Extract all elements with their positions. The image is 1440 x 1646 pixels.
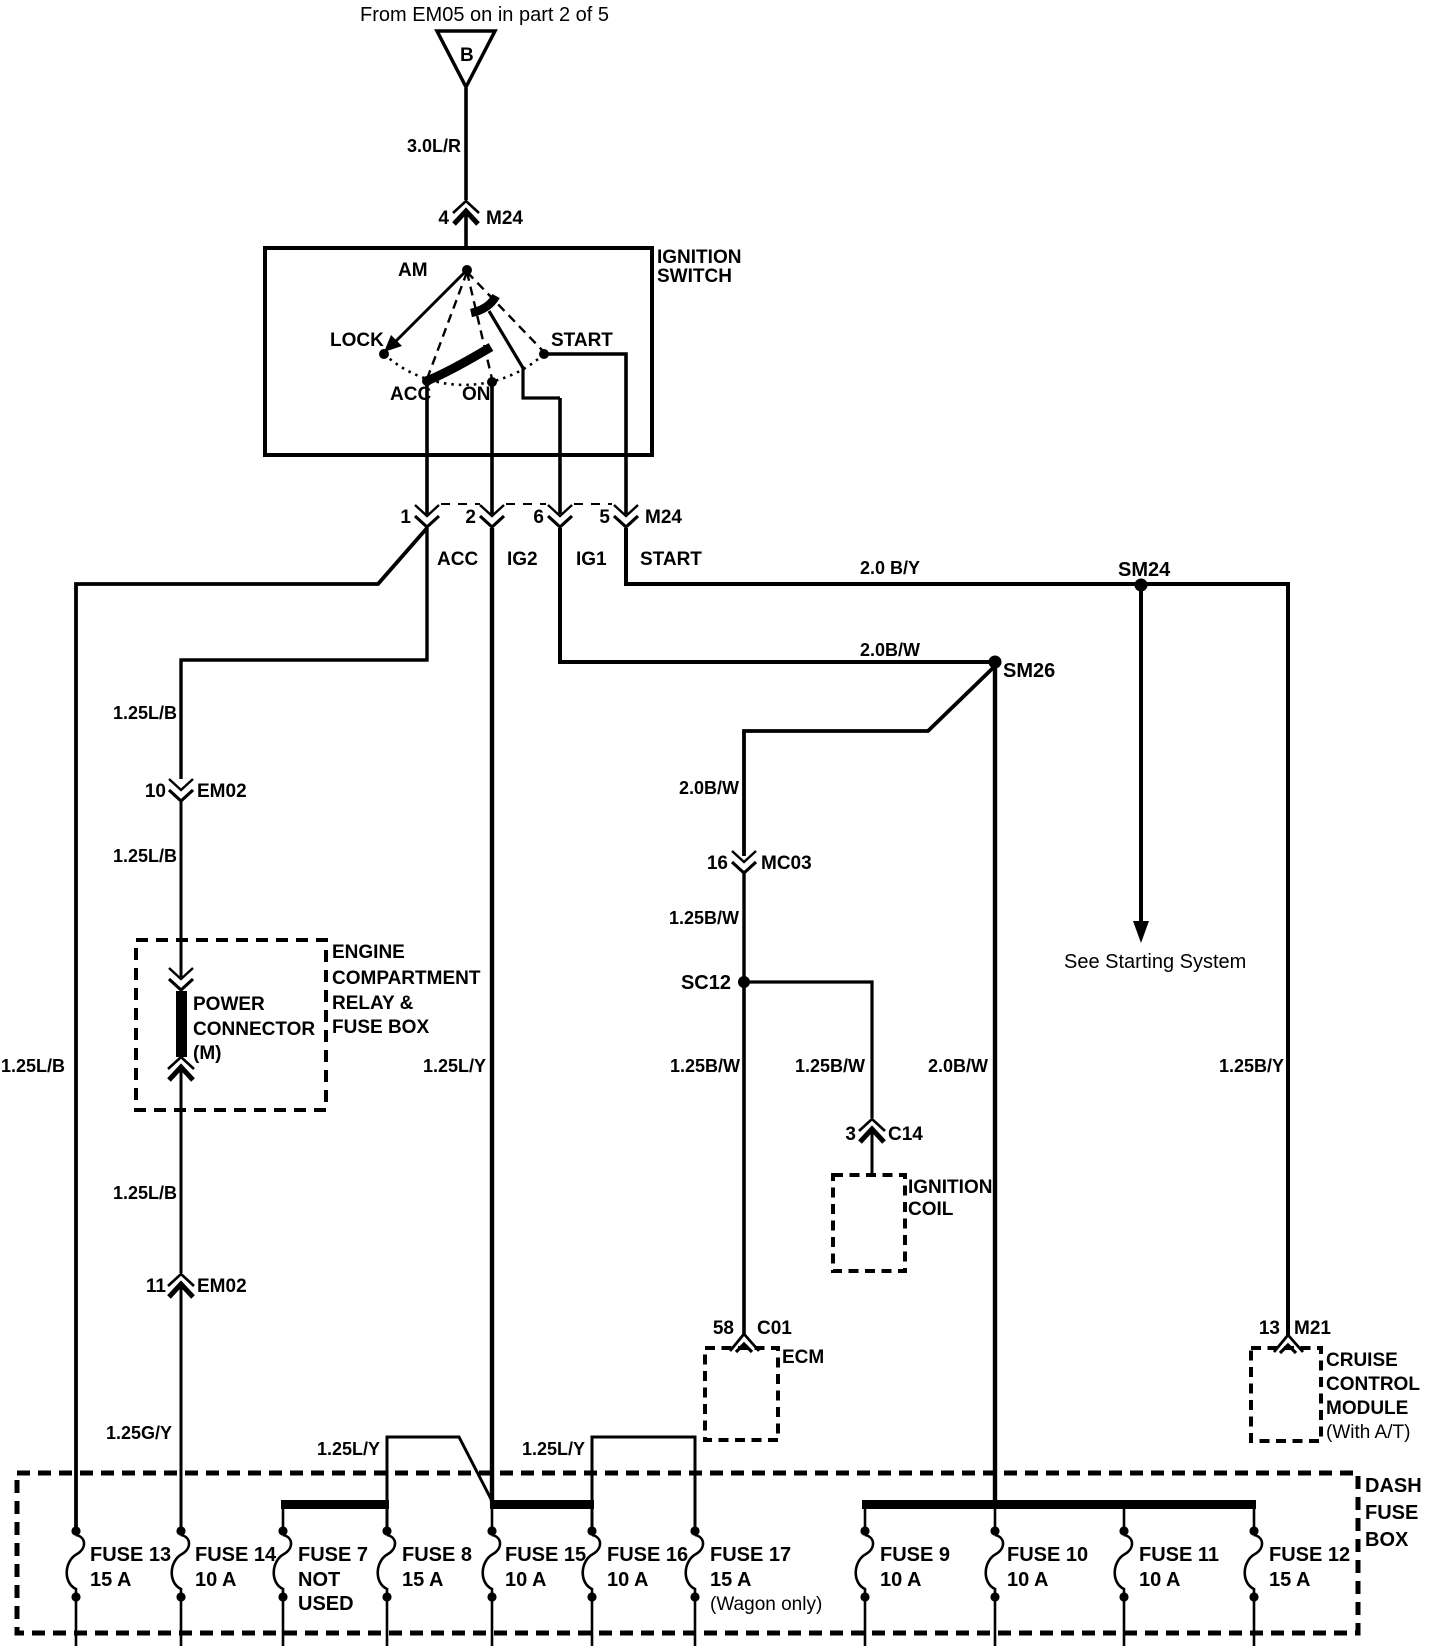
svg-text:ON: ON [462,384,491,405]
connector M24 pin 1 [415,505,439,527]
wire 3.0L/R [464,88,468,200]
cruise control module box [1251,1348,1321,1441]
svg-text:IG2: IG2 [507,549,538,570]
svg-text:ACC: ACC [437,549,478,570]
svg-text:SM26: SM26 [1003,660,1055,682]
svg-text:2: 2 [465,507,476,528]
connector M24 pin 5 [614,505,638,527]
svg-text:1.25L/B: 1.25L/B [113,1183,177,1203]
svg-text:FUSE 13: FUSE 13 [90,1544,171,1566]
svg-text:2.0B/W: 2.0B/W [860,640,920,660]
wire IG1 to SM26 [560,528,995,662]
svg-text:1: 1 [400,507,411,528]
svg-text:5: 5 [599,507,610,528]
wire SM24 to right branch [1141,584,1288,1337]
fuse 13 [67,1526,84,1601]
svg-text:MC03: MC03 [761,853,812,874]
svg-text:(M): (M) [193,1043,221,1064]
engine compartment relay and fuse box [136,940,326,1110]
wire below power connector [180,1069,183,1273]
connector M21 pin 13 [1274,1335,1303,1353]
svg-text:15 A: 15 A [710,1569,752,1591]
svg-text:10 A: 10 A [195,1569,237,1591]
svg-text:1.25B/Y: 1.25B/Y [1219,1056,1284,1076]
svg-text:From EM05 on in part 2 of 5: From EM05 on in part 2 of 5 [360,4,609,26]
connector C14 pin 3 [859,1119,885,1142]
svg-text:SWITCH: SWITCH [657,266,732,287]
svg-text:C01: C01 [757,1318,792,1339]
svg-text:(With A/T): (With A/T) [1326,1422,1410,1443]
svg-text:15 A: 15 A [1269,1569,1311,1591]
svg-text:EM02: EM02 [197,781,247,802]
svg-text:1.25L/B: 1.25L/B [1,1056,65,1076]
fuse 8 [378,1526,395,1601]
dashed line AM-START [467,272,543,351]
svg-text:10 A: 10 A [1139,1569,1181,1591]
connector MC03 pin 16 [732,851,756,873]
svg-text:START: START [640,549,702,570]
svg-text:START: START [551,330,613,351]
svg-text:4: 4 [438,208,449,229]
svg-text:NOT: NOT [298,1569,340,1591]
svg-text:15 A: 15 A [90,1569,132,1591]
svg-text:BOX: BOX [1365,1529,1409,1551]
svg-text:FUSE 16: FUSE 16 [607,1544,688,1566]
svg-text:1.25L/Y: 1.25L/Y [423,1056,486,1076]
svg-text:6: 6 [533,507,544,528]
svg-text:3.0L/R: 3.0L/R [407,136,461,156]
svg-text:16: 16 [707,853,728,874]
wire SC12 to ECM [742,982,746,1336]
svg-text:ECM: ECM [782,1347,824,1368]
power connector lower chevrons [168,1057,194,1080]
svg-text:IGNITION: IGNITION [657,247,741,268]
fuse 11 [1123,1505,1126,1531]
svg-text:FUSE 8: FUSE 8 [402,1544,472,1566]
node AM [462,265,472,275]
svg-text:COMPARTMENT: COMPARTMENT [332,968,481,989]
contact arm AM-LOCK [388,270,467,349]
svg-text:58: 58 [713,1318,734,1339]
svg-text:1.25L/B: 1.25L/B [113,703,177,723]
svg-text:3: 3 [845,1124,856,1145]
node ACC [422,376,432,386]
svg-text:1.25B/W: 1.25B/W [795,1056,865,1076]
wire SC12 to C14 branch [744,982,872,1118]
bus bar fuses 7-8 [281,1500,389,1509]
svg-text:FUSE: FUSE [1365,1502,1418,1524]
svg-text:11: 11 [146,1276,167,1297]
wire 1.25L/Y riser fuse 8 [387,1437,492,1531]
svg-text:DASH: DASH [1365,1475,1422,1497]
svg-text:1.25L/Y: 1.25L/Y [317,1439,380,1459]
svg-text:CONNECTOR: CONNECTOR [193,1019,315,1040]
rotor contact lower [424,347,491,382]
node LOCK [379,349,389,359]
fuse 16 [583,1526,600,1601]
connector M24 dashed strip [441,503,480,505]
fuse 14 [172,1526,189,1601]
dashed line AM-ON [467,272,492,379]
svg-text:MODULE: MODULE [1326,1398,1408,1419]
wire START inside switch [544,354,626,514]
svg-text:POWER: POWER [193,994,265,1015]
wire 1.25L/B [180,801,183,977]
wire START to SM24 [626,528,1141,584]
svg-text:SM24: SM24 [1118,559,1171,581]
svg-text:1.25L/B: 1.25L/B [113,846,177,866]
wire ACC inside switch [425,381,429,514]
svg-text:FUSE 10: FUSE 10 [1007,1544,1088,1566]
wire ACC to left branch [76,528,427,1531]
fuse 10 [994,1505,997,1531]
wire 2.0B/W down to fuse box [993,662,997,1504]
svg-text:FUSE 12: FUSE 12 [1269,1544,1350,1566]
svg-text:10 A: 10 A [505,1569,547,1591]
svg-text:10 A: 10 A [607,1569,649,1591]
wire to ignition coil [871,1130,874,1175]
wire ACC to EM02 branch [181,528,427,779]
svg-text:CONTROL: CONTROL [1326,1374,1420,1395]
off-page connector B [437,31,495,87]
svg-text:FUSE 9: FUSE 9 [880,1544,950,1566]
svg-text:COIL: COIL [908,1199,954,1220]
fuse 9 [864,1505,867,1531]
svg-text:1.25L/Y: 1.25L/Y [522,1439,585,1459]
svg-text:2.0B/W: 2.0B/W [679,778,739,798]
svg-text:10 A: 10 A [1007,1569,1049,1591]
detent arc [384,354,544,385]
wire IG2 inside switch [490,382,494,514]
wire 1.25L/Y riser fuse 16 to 17 [592,1437,695,1531]
dashed line AM-ACC [427,272,467,379]
rotor contact upper [471,296,496,313]
svg-text:CRUISE: CRUISE [1326,1350,1398,1371]
wire 1.25B/W [742,873,745,982]
bus bar fuses 15-16 [490,1500,594,1509]
ignition coil box [833,1175,905,1271]
wire 1.25G/Y to fuse 14 [180,1285,183,1531]
svg-text:FUSE 11: FUSE 11 [1139,1544,1219,1566]
svg-text:2.0 B/Y: 2.0 B/Y [860,558,920,578]
svg-text:M21: M21 [1294,1318,1331,1339]
svg-text:IGNITION: IGNITION [908,1177,992,1198]
svg-text:FUSE BOX: FUSE BOX [332,1017,429,1038]
ignition switch box [265,248,652,455]
svg-text:EM02: EM02 [197,1276,247,1297]
connector M24 pin 4 [453,201,479,224]
svg-text:1.25B/W: 1.25B/W [669,908,739,928]
power connector M bar [176,991,187,1057]
svg-text:1.25G/Y: 1.25G/Y [106,1423,172,1443]
svg-text:(Wagon only): (Wagon only) [710,1594,822,1615]
fuse 15 [491,1500,494,1531]
bus bar fuses 9-12 [862,1500,1256,1509]
arrow see starting system [1139,585,1143,925]
svg-text:10 A: 10 A [880,1569,922,1591]
svg-text:AM: AM [398,260,428,281]
fuse 17 [686,1526,703,1601]
rotor arm to IG1 [489,311,560,398]
svg-text:FUSE 15: FUSE 15 [505,1544,586,1566]
svg-text:IG1: IG1 [576,549,607,570]
svg-text:M24: M24 [645,507,682,528]
wire IG2 down to fuse box [490,528,494,1502]
connector EM02 pin 11 [168,1274,194,1297]
connector M24 pin 2 [480,505,504,527]
svg-text:ENGINE: ENGINE [332,942,405,963]
ECM box [705,1348,778,1440]
fuse 7 [282,1505,285,1531]
node SM26 [989,656,1002,669]
svg-text:15 A: 15 A [402,1569,444,1591]
svg-text:FUSE 14: FUSE 14 [195,1544,277,1566]
node SM24 [1135,579,1148,592]
node SC12 [738,976,750,988]
svg-text:B: B [460,45,474,66]
svg-text:FUSE 17: FUSE 17 [710,1544,791,1566]
svg-text:SC12: SC12 [681,972,731,994]
connector C01 pin 58 [730,1334,759,1352]
node ON [487,377,497,387]
connector M24 pin 6 [548,505,572,527]
node START [539,349,549,359]
svg-text:USED: USED [298,1593,354,1615]
svg-text:C14: C14 [888,1124,923,1145]
svg-text:13: 13 [1259,1318,1280,1339]
svg-text:FUSE 7: FUSE 7 [298,1544,368,1566]
connector EM02 pin 10 [169,779,193,801]
svg-text:2.0B/W: 2.0B/W [928,1056,988,1076]
svg-text:RELAY &: RELAY & [332,993,414,1014]
wire IG1 inside switch [558,398,562,514]
wire SM26 to MC03 branch [744,666,995,856]
svg-text:M24: M24 [486,208,523,229]
fuse 12 [1253,1505,1256,1531]
svg-text:10: 10 [145,781,166,802]
dash fuse box border [17,1473,1358,1633]
svg-text:1.25B/W: 1.25B/W [670,1056,740,1076]
power connector upper chevrons [169,968,193,990]
svg-text:LOCK: LOCK [330,330,384,351]
svg-text:See Starting System: See Starting System [1064,951,1246,973]
